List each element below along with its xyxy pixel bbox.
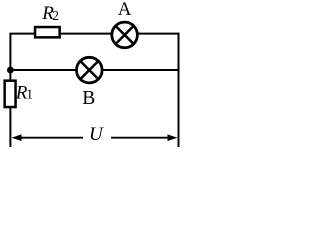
svg-text:A: A xyxy=(118,0,132,20)
lamp A xyxy=(112,22,138,48)
resistor R1 xyxy=(5,81,16,107)
lamp B xyxy=(77,57,103,83)
voltage dimension arrow left xyxy=(12,134,84,141)
svg-text:B: B xyxy=(82,88,95,109)
node junction xyxy=(7,67,14,74)
svg-text:U: U xyxy=(89,124,104,145)
voltage dimension arrow right xyxy=(111,134,178,141)
wire left vertical lower xyxy=(9,108,11,147)
wire top rail left segment xyxy=(10,34,35,80)
resistor R2 xyxy=(35,27,60,37)
wire middle rail left xyxy=(10,69,77,71)
wire middle rail right xyxy=(102,69,179,71)
wire lamp A to top right corner xyxy=(137,33,178,35)
svg-text:2: 2 xyxy=(52,8,59,23)
wire R2 to lamp A xyxy=(61,33,112,35)
svg-text:1: 1 xyxy=(26,87,33,102)
wire right vertical xyxy=(178,33,180,147)
